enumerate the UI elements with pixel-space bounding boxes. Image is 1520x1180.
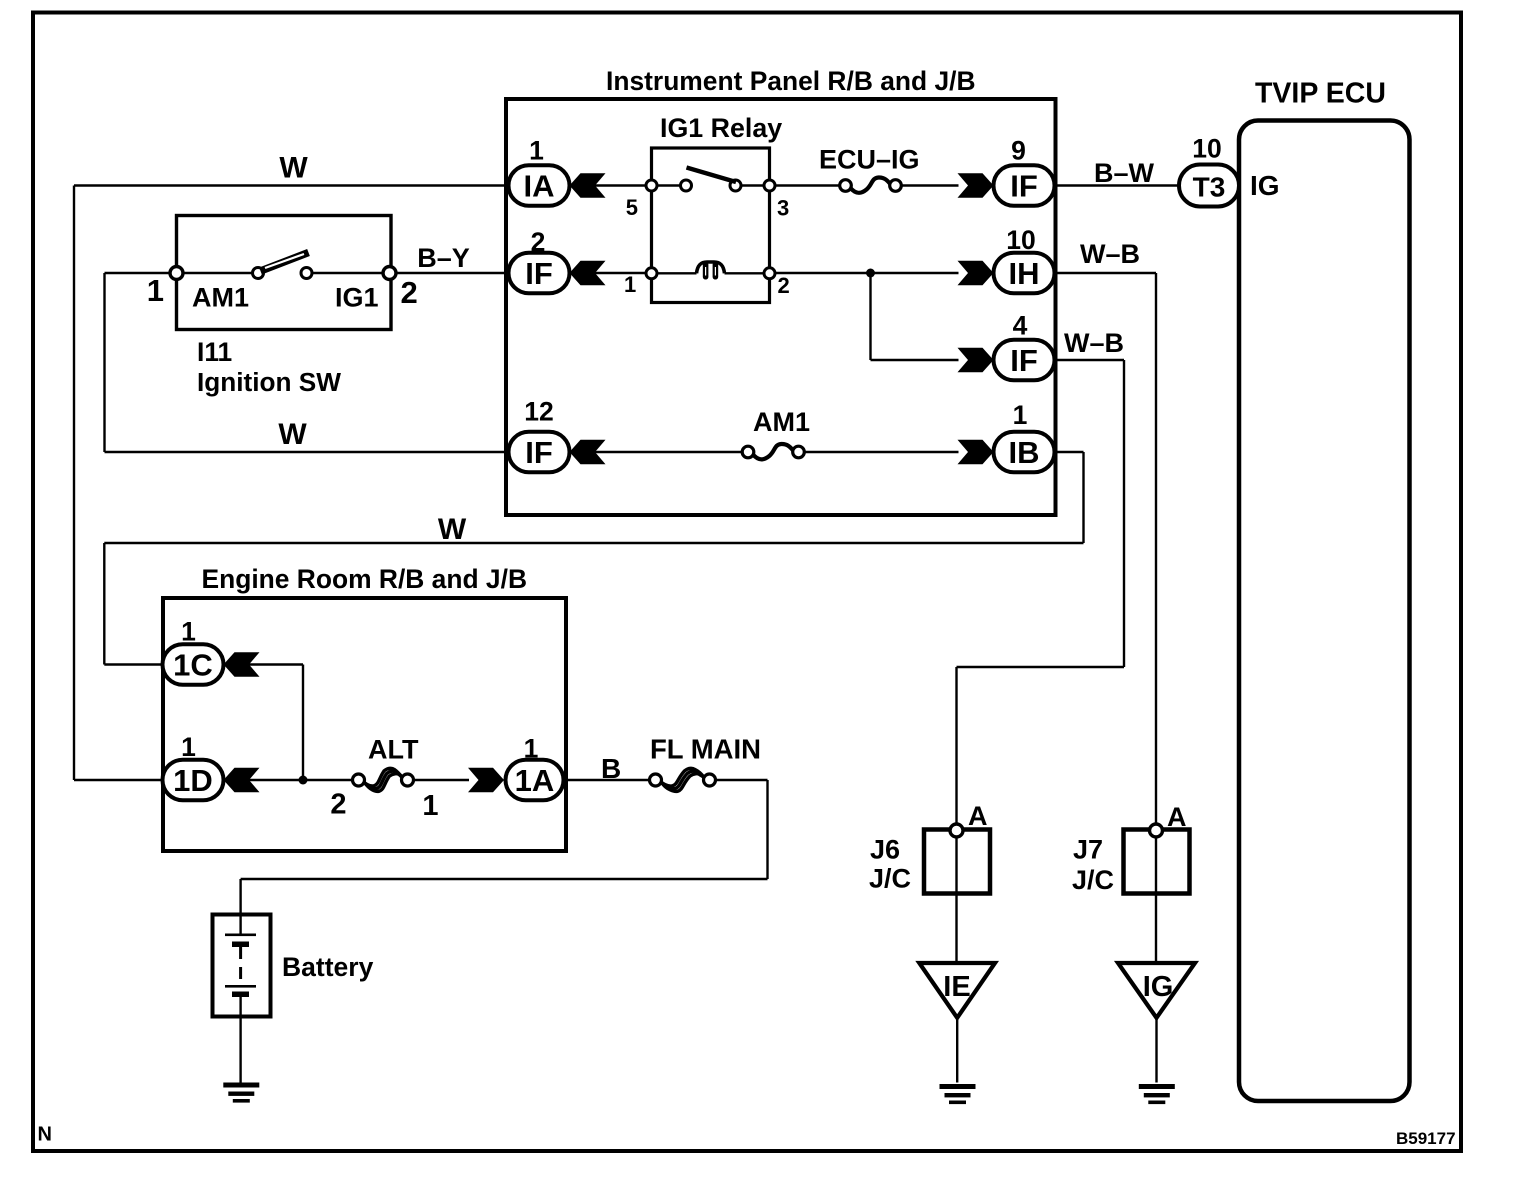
svg-text:I11: I11 bbox=[197, 337, 232, 367]
svg-text:A: A bbox=[1167, 802, 1187, 832]
svg-text:J/C: J/C bbox=[869, 864, 911, 894]
svg-text:2: 2 bbox=[401, 275, 418, 310]
svg-text:J6: J6 bbox=[870, 835, 900, 865]
svg-text:T3: T3 bbox=[1193, 172, 1226, 203]
svg-text:Battery: Battery bbox=[282, 952, 374, 982]
svg-text:1: 1 bbox=[524, 734, 539, 764]
svg-text:9: 9 bbox=[1011, 136, 1026, 166]
svg-text:Ignition SW: Ignition SW bbox=[197, 367, 341, 397]
svg-text:ALT: ALT bbox=[368, 735, 419, 765]
svg-text:5: 5 bbox=[626, 195, 638, 220]
svg-text:AM1: AM1 bbox=[192, 283, 249, 313]
svg-text:IF: IF bbox=[1010, 169, 1038, 204]
svg-text:N: N bbox=[38, 1124, 52, 1146]
svg-text:IG1: IG1 bbox=[335, 283, 379, 313]
svg-text:B–Y: B–Y bbox=[417, 243, 470, 273]
svg-text:1: 1 bbox=[147, 273, 164, 308]
svg-text:IF: IF bbox=[525, 435, 553, 470]
svg-text:W: W bbox=[279, 152, 308, 185]
svg-text:W: W bbox=[438, 513, 467, 546]
svg-text:1: 1 bbox=[181, 732, 196, 762]
svg-text:Engine Room R/B and J/B: Engine Room R/B and J/B bbox=[202, 564, 528, 594]
svg-text:2: 2 bbox=[531, 227, 546, 257]
svg-text:2: 2 bbox=[330, 789, 346, 821]
svg-text:IF: IF bbox=[525, 256, 553, 291]
svg-text:1D: 1D bbox=[173, 763, 213, 798]
svg-text:W–B: W–B bbox=[1080, 239, 1140, 269]
svg-text:TVIP ECU: TVIP ECU bbox=[1255, 78, 1386, 110]
svg-text:IH: IH bbox=[1009, 256, 1040, 291]
svg-text:Instrument Panel R/B and J/B: Instrument Panel R/B and J/B bbox=[606, 66, 976, 96]
svg-text:1C: 1C bbox=[173, 648, 213, 683]
svg-text:IG1 Relay: IG1 Relay bbox=[660, 113, 782, 143]
svg-text:12: 12 bbox=[524, 397, 553, 427]
svg-text:W: W bbox=[278, 418, 307, 451]
svg-text:1A: 1A bbox=[515, 763, 555, 798]
svg-text:B–W: B–W bbox=[1094, 158, 1155, 188]
svg-text:IB: IB bbox=[1009, 435, 1040, 470]
svg-text:IG: IG bbox=[1250, 170, 1280, 201]
svg-text:J/C: J/C bbox=[1072, 865, 1114, 895]
svg-text:1: 1 bbox=[1013, 400, 1028, 430]
svg-text:IG: IG bbox=[1143, 971, 1174, 1003]
svg-text:1: 1 bbox=[624, 272, 636, 297]
svg-text:W–B: W–B bbox=[1064, 328, 1124, 358]
svg-text:3: 3 bbox=[777, 196, 789, 221]
svg-text:10: 10 bbox=[1192, 134, 1221, 164]
svg-text:ECU–IG: ECU–IG bbox=[819, 145, 920, 175]
svg-text:B59177: B59177 bbox=[1396, 1129, 1456, 1148]
svg-text:IF: IF bbox=[1010, 343, 1038, 378]
svg-text:IA: IA bbox=[524, 169, 555, 204]
svg-text:10: 10 bbox=[1006, 225, 1035, 255]
svg-text:J7: J7 bbox=[1073, 835, 1103, 865]
svg-text:1: 1 bbox=[529, 136, 544, 166]
svg-text:AM1: AM1 bbox=[753, 407, 810, 437]
svg-text:1: 1 bbox=[422, 790, 438, 822]
svg-text:A: A bbox=[968, 801, 988, 831]
svg-text:2: 2 bbox=[778, 273, 790, 298]
svg-text:FL MAIN: FL MAIN bbox=[650, 734, 761, 765]
svg-text:1: 1 bbox=[181, 617, 196, 647]
svg-text:IE: IE bbox=[943, 971, 970, 1003]
svg-text:4: 4 bbox=[1013, 311, 1028, 341]
svg-text:B: B bbox=[601, 753, 621, 784]
